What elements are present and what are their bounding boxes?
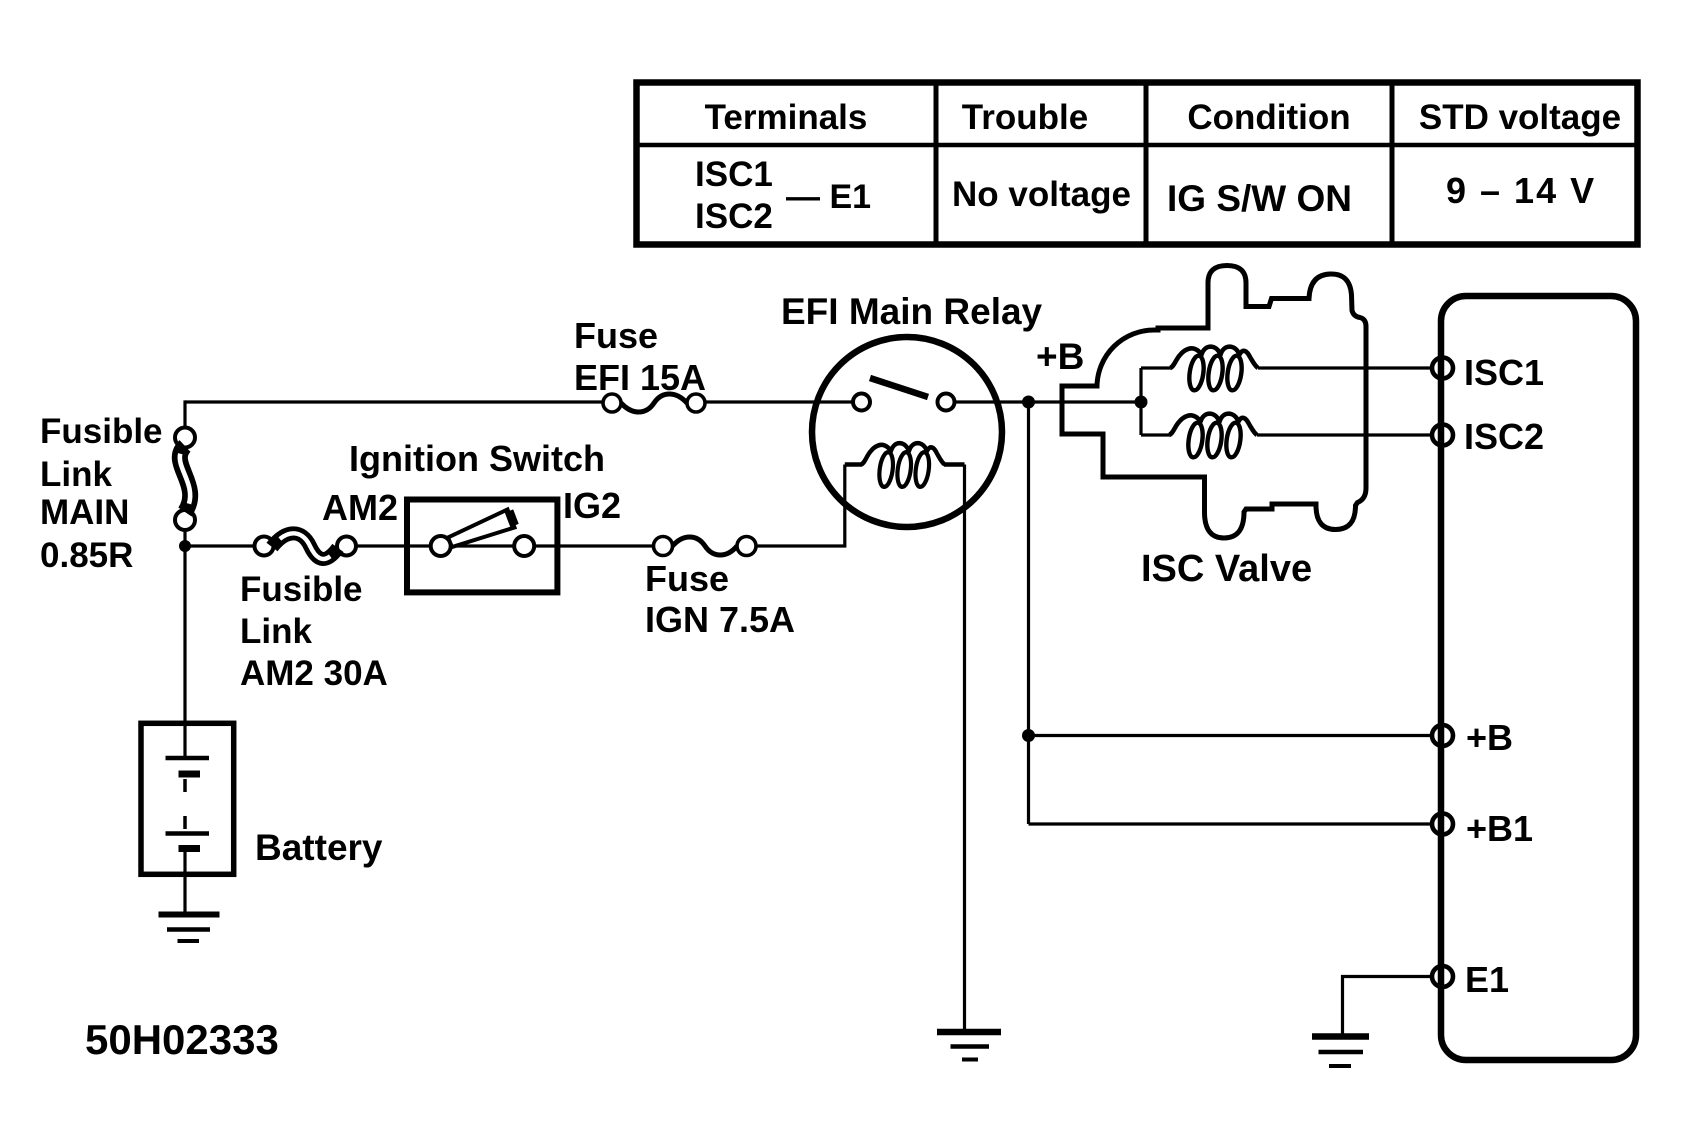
table column divider 1 — [934, 83, 939, 245]
wire relay coil to ground — [963, 465, 966, 1032]
EFI main relay right contact circle — [938, 394, 955, 411]
ISC valve coil 1 — [1170, 347, 1258, 392]
fusible link MAIN 0.85R top circle — [175, 428, 195, 448]
fuse IGN 7.5A wavy element — [673, 537, 738, 555]
fuse IGN 7.5A left circle — [654, 537, 673, 556]
EFI main relay left contact circle — [853, 394, 870, 411]
fuse EFI 15A left circle — [603, 394, 621, 412]
fusible link AM2 right circle — [337, 537, 356, 556]
battery plate short top — [179, 771, 201, 778]
svg-text:ISC1: ISC1 — [695, 155, 773, 194]
battery plate short bottom — [179, 845, 201, 852]
EFI main relay switch lever — [870, 378, 928, 397]
wire left vertical top corner to fusible link MAIN — [183, 400, 186, 427]
fusible link AM2 left circle — [255, 537, 274, 556]
fusible link MAIN 0.85R bottom circle — [175, 510, 195, 530]
svg-text:STD voltage: STD voltage — [1419, 98, 1621, 137]
ISC valve coil 2 — [1169, 414, 1257, 459]
svg-text:IGN 7.5A: IGN 7.5A — [645, 599, 795, 640]
svg-text:EFI Main Relay: EFI Main Relay — [781, 291, 1043, 332]
node +B junction dot on main wire — [1022, 396, 1035, 409]
fuse IGN 7.5A right circle — [737, 537, 756, 556]
ignition switch IG2 contact circle — [514, 536, 534, 556]
svg-text:9 – 14 V: 9 – 14 V — [1446, 170, 1596, 211]
wire battery to ground — [183, 849, 186, 915]
fusible link MAIN 0.85R wavy element — [180, 446, 190, 512]
svg-text:MAIN: MAIN — [40, 493, 129, 532]
battery plate long top — [166, 756, 210, 761]
wire top coil to ISC1 terminal — [1258, 366, 1433, 369]
wire junction to top coil — [1141, 366, 1170, 369]
node +B branch dot — [1022, 729, 1035, 742]
battery plate long bottom — [166, 831, 210, 836]
svg-text:ISC2: ISC2 — [695, 197, 773, 236]
terminal +B1 circle — [1432, 814, 1453, 835]
terminal +B circle — [1432, 725, 1453, 746]
node junction dot at 0.85R branch — [179, 540, 191, 552]
wire bottom coil to ISC2 terminal — [1257, 433, 1433, 436]
wire fusible link MAIN to battery — [183, 530, 186, 758]
wire +B1 to ECU — [1029, 822, 1434, 825]
wire fuse IGN to relay coil — [756, 465, 845, 547]
wire ignition switch to fuse IGN — [534, 544, 653, 547]
ground E1 — [1312, 1033, 1369, 1040]
fuse EFI 15A wavy element — [621, 394, 687, 412]
table header row divider — [637, 143, 1638, 148]
svg-text:EFI 15A: EFI 15A — [574, 357, 706, 398]
svg-text:Fusible: Fusible — [40, 412, 163, 451]
wire lower run to fusible link AM2 — [185, 544, 255, 547]
svg-text:AM2 30A: AM2 30A — [240, 654, 388, 693]
svg-text:E1: E1 — [1465, 959, 1509, 1000]
svg-text:Fusible: Fusible — [240, 570, 363, 609]
svg-text:+B1: +B1 — [1466, 808, 1533, 849]
wire +B vertical down — [1027, 402, 1030, 824]
svg-text:0.85R: 0.85R — [40, 536, 133, 575]
EFI main relay circle — [812, 337, 1002, 527]
svg-text:Terminals: Terminals — [705, 98, 868, 137]
svg-text:ISC Valve: ISC Valve — [1141, 548, 1312, 590]
svg-text:ISC2: ISC2 — [1464, 416, 1544, 457]
wire top run fuse EFI to relay — [705, 400, 853, 403]
node ISC valve junction dot — [1135, 396, 1148, 409]
wire E1 to ground — [1343, 977, 1434, 1037]
svg-text:IG2: IG2 — [563, 485, 621, 526]
fuse EFI 15A right circle — [687, 394, 705, 412]
svg-text:+B: +B — [1466, 717, 1513, 758]
wire junction to bottom coil — [1141, 433, 1169, 436]
wire fusible link AM2 to ignition switch — [356, 544, 431, 547]
svg-text:50H02333: 50H02333 — [85, 1016, 279, 1063]
svg-text:— E1: — E1 — [786, 178, 871, 216]
terminal ISC1 circle — [1432, 358, 1453, 379]
table column divider 2 — [1144, 83, 1149, 245]
table outer border — [637, 83, 1638, 245]
ignition switch box — [407, 500, 557, 593]
terminal ISC2 circle — [1432, 425, 1453, 446]
ECU connector body — [1441, 296, 1636, 1060]
wire relay output to ISC valve junction — [955, 400, 1141, 403]
ground relay coil — [937, 1029, 1001, 1036]
terminal E1 circle — [1432, 966, 1453, 987]
svg-text:AM2: AM2 — [322, 487, 398, 528]
svg-text:ISC1: ISC1 — [1464, 352, 1544, 393]
svg-text:Fuse: Fuse — [645, 558, 729, 599]
fusible link AM2 wavy element — [272, 533, 338, 559]
wire ISC valve junction vertical — [1139, 368, 1142, 435]
wire +B to ECU — [1029, 734, 1434, 737]
svg-text:Link: Link — [240, 612, 312, 651]
svg-text:Fuse: Fuse — [574, 315, 658, 356]
svg-text:Link: Link — [40, 455, 112, 494]
svg-text:Battery: Battery — [255, 827, 383, 868]
svg-text:No voltage: No voltage — [952, 175, 1131, 214]
table column divider 3 — [1390, 83, 1395, 245]
svg-text:IG S/W ON: IG S/W ON — [1167, 178, 1352, 219]
wire between ignition switch contacts — [451, 544, 515, 547]
svg-text:Condition: Condition — [1187, 98, 1350, 137]
EFI main relay coil — [845, 443, 965, 488]
svg-text:Trouble: Trouble — [962, 98, 1088, 137]
ignition switch lever — [448, 510, 515, 548]
ignition switch AM2 contact circle — [431, 536, 451, 556]
svg-text:+B: +B — [1036, 336, 1084, 377]
svg-text:Ignition Switch: Ignition Switch — [349, 438, 605, 479]
ground battery — [159, 912, 220, 918]
ISC valve body outline — [1062, 266, 1366, 539]
battery dashed middle — [183, 779, 187, 831]
wire top run left of fuse EFI — [185, 400, 603, 403]
battery box — [141, 723, 234, 874]
